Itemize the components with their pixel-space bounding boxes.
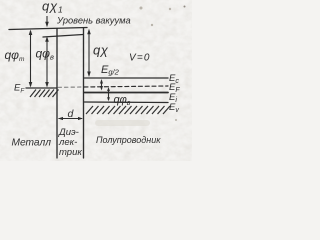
svg-text:qχ: qχ bbox=[93, 43, 109, 58]
svg-text:V=0: V=0 bbox=[129, 53, 151, 64]
svg-text:Полупроводник: Полупроводник bbox=[96, 135, 161, 145]
svg-text:Металл: Металл bbox=[12, 138, 52, 149]
svg-text:трик: трик bbox=[59, 147, 82, 158]
svg-text:Уровень вакуума: Уровень вакуума bbox=[56, 16, 131, 26]
